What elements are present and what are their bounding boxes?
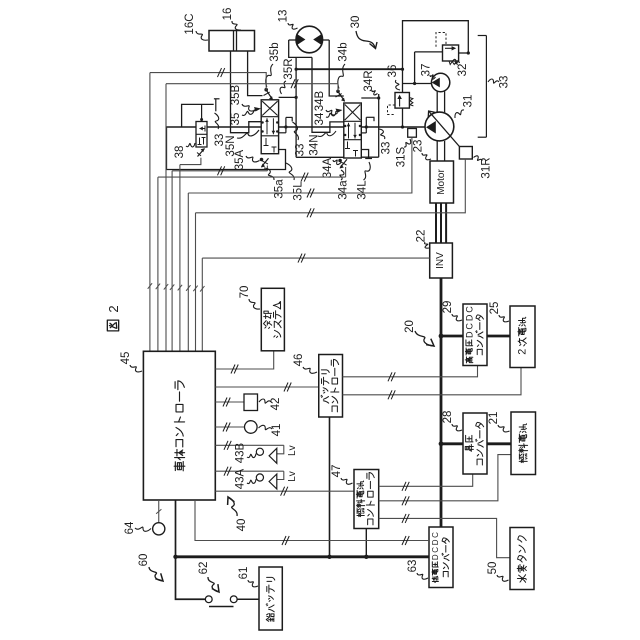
solenoid 34a [338,159,347,169]
label 28 [442,411,462,431]
label 13 [278,10,298,30]
wire 45 to 47 [215,487,354,496]
fuel cell controller 47 [354,470,379,529]
svg-text:2: 2 [106,305,121,312]
label 35a [264,168,286,199]
svg-text:20: 20 [404,320,416,333]
svg-text:13: 13 [278,10,290,23]
wire L7 to regulator 31R [196,159,466,217]
wire valve34 R-port [361,94,380,157]
electric motor 23 [430,161,454,203]
wire L8 to INV [202,254,429,263]
label 32 [452,59,469,76]
wire 46 to 29 [343,366,478,382]
label 35N [225,130,259,157]
svg-text:D: D [431,539,440,545]
lead battery 61 [259,567,282,630]
label 31S [396,139,411,167]
label 33 (bracket) [488,76,511,89]
relief valve 32 [443,45,459,65]
wire main pressure line y=127 [167,125,426,128]
sensor 31S [408,129,417,138]
label 16 [222,8,241,30]
wire feed 35a [266,166,268,171]
label 16C [184,13,208,40]
svg-text:36: 36 [387,65,399,78]
svg-text:31: 31 [463,95,475,108]
svg-text:33: 33 [295,144,307,157]
label 62 [198,562,219,592]
wire 47 to 28 [379,474,473,491]
wire L6 to sensor 31S [188,137,412,197]
wire to valve34 mid port [312,57,344,132]
label 35B [230,84,256,111]
svg-text:38: 38 [174,146,186,159]
label 60 [138,554,163,581]
label 35b [266,42,281,87]
svg-text:34b: 34b [338,42,350,61]
svg-text:D: D [464,314,474,321]
solenoid valve 38 [196,122,207,148]
svg-text:C: C [431,547,440,553]
wire link V1 bottom to valve34 [296,156,344,158]
valve 34 body [344,103,362,158]
wire 38 top stub [200,104,203,121]
svg-text:50: 50 [487,562,499,575]
label 38 [174,143,195,158]
label 45 [120,352,142,372]
HV branch to 28 [441,442,511,445]
secondary battery 25 [510,306,535,368]
tank return header [182,104,214,127]
hydraulic motor 13 [296,26,323,53]
wire valve35 R-port to V1 [279,96,297,98]
battery controller 46 [319,355,343,418]
wire node V1 (35R line) [295,57,298,157]
svg-text:Lv: Lv [287,445,298,456]
label 30 [350,16,377,49]
label 63 [407,560,428,580]
svg-text:C: C [464,323,474,330]
label 34b [338,42,350,88]
valve 35 body [261,100,278,154]
svg-text:28: 28 [442,411,454,424]
svg-text:33: 33 [499,76,511,89]
label 23 [413,140,432,160]
label 35R [280,58,295,94]
wire 45 to 63 signal [195,500,429,545]
body controller 45 [143,351,215,500]
label 34N [309,131,337,156]
svg-text:34A: 34A [322,157,334,178]
svg-text:70: 70 [239,286,251,299]
drain 34L [361,150,372,159]
svg-text:35R: 35R [283,58,295,79]
svg-text:D: D [431,554,440,560]
svg-text:43A: 43A [235,468,247,489]
svg-text:35: 35 [230,113,242,126]
drain 35L [167,127,286,170]
wire motor left port [289,40,312,57]
svg-text:16: 16 [222,8,234,21]
wire 46 to 25 [343,368,522,400]
label 70 [239,286,260,309]
label 47 [331,465,353,485]
switch 62 [205,596,237,607]
label 40 [228,497,248,531]
svg-text:33: 33 [381,142,393,155]
regulator 31R [459,147,472,160]
label 34B [314,90,338,114]
svg-text:46: 46 [293,354,305,367]
LV power line from 45 [173,500,205,599]
LV bus [176,555,430,558]
svg-text:C: C [431,532,440,538]
relief valve 36 [395,93,413,109]
wire 36 to main line [402,108,404,127]
wire 47 to 21 [379,455,511,506]
svg-text:34R: 34R [363,70,375,91]
bracket 33 [478,36,487,138]
label 20 [404,320,434,346]
hydraulic cylinder 16 [209,31,255,52]
svg-text:35L: 35L [293,181,305,201]
svg-text:45: 45 [120,352,132,365]
svg-text:62: 62 [198,562,210,575]
label 42 [259,398,282,411]
svg-text:42: 42 [270,398,282,411]
svg-text:35B: 35B [230,84,242,105]
svg-text:C: C [464,306,474,313]
svg-text:60: 60 [138,554,150,567]
svg-text:37: 37 [421,64,433,77]
fuel cell 21 [511,412,536,475]
label 36 [387,65,400,90]
wire 45 to 41 [215,423,244,432]
wire L3 to solenoid 34b [166,79,338,91]
label 43B [235,442,256,463]
HV DCDC converter 29 [463,304,487,366]
label 31R [474,156,493,179]
label 34 [314,109,343,126]
wire feed 34a [345,167,347,177]
label 22 [416,230,430,249]
sensor 41 [245,421,258,434]
hydrogen tank 50 [510,528,534,590]
solenoid 35a [260,158,269,168]
wire 45 to 70 [215,351,273,374]
boost converter 28 [463,413,487,474]
label 37 [421,64,436,80]
wire L1 to solenoid 35b [150,68,266,90]
svg-text:35A: 35A [234,149,246,170]
pilot sensing dotted (32) [436,33,446,49]
wire 46 to LV bus [327,417,331,559]
main pump 31 [425,111,459,147]
pilot sensing dotted (36) [388,105,396,115]
svg-text:21: 21 [488,412,500,425]
tank T3 symbol [361,117,374,133]
wire L5 to solenoid 38 [180,158,201,165]
label 50 [487,562,509,582]
svg-text:22: 22 [416,230,428,243]
svg-text:16C: 16C [184,13,196,34]
label Lv (43A) [287,471,298,482]
tank symbol 33 (T1) [214,99,220,112]
svg-text:61: 61 [238,567,250,580]
svg-text:23: 23 [413,140,425,153]
svg-text:D: D [464,331,474,338]
svg-text:40: 40 [236,519,248,532]
label 33 (tank T1) [214,113,226,146]
wire 45 to 46 [215,383,318,392]
svg-text:47: 47 [331,465,343,478]
svg-text:31S: 31S [396,146,408,167]
wire 47 to 50 [379,514,510,558]
wire 47 to LV bus [364,529,368,560]
wire L4 to solenoid 35a [172,166,267,175]
figure title 図2 [106,305,121,331]
wire 34R to bottom link [361,156,378,158]
svg-text:35a: 35a [274,179,286,199]
label 35 [230,107,261,125]
label Lv (43B) [287,445,298,456]
label 64 [124,521,151,534]
label 34A [322,157,341,178]
wire L2 to solenoid 34a [158,173,346,182]
svg-text:63: 63 [407,560,419,573]
svg-text:34L: 34L [357,180,369,200]
label 61 [238,567,258,587]
svg-text:25: 25 [489,302,501,315]
cooling system 70 [261,288,284,351]
svg-text:Lv: Lv [287,471,298,482]
HV bus [439,278,444,527]
label 43A [235,468,256,489]
svg-text:32: 32 [457,64,469,77]
tank T2 symbol [279,117,293,132]
svg-text:Motor: Motor [436,169,447,195]
wire pilot header y=69 [296,68,404,71]
wire pilot loop top [403,21,469,93]
label 35A [234,149,260,170]
HV branch to 29 [441,335,510,338]
sensor 42 [244,394,258,411]
svg-text:35b: 35b [269,42,281,61]
3-phase lines [436,203,446,243]
level sensor 43A [215,467,283,489]
label 21 [488,412,510,432]
svg-text:34: 34 [314,112,326,125]
label 33 (tank T2) [293,122,307,156]
label 29 [442,301,462,321]
shaft 37-31 [437,92,444,113]
controller signal bundle [148,73,205,352]
label 25 [489,302,509,322]
shaft 31-motor [437,141,444,161]
wire 45 to 42 [215,398,244,407]
pilot pump 37 [431,73,449,91]
label 35L [286,163,305,201]
wire 45 to relay circle 64 [156,500,161,523]
svg-text:64: 64 [124,521,136,534]
solenoid actuator 38 [197,148,205,156]
wire pilot pump line [403,51,470,85]
label 34R [363,70,378,94]
solenoid 35b [264,88,274,100]
LV DCDC converter 63 [429,527,453,588]
label 34a [338,170,350,200]
inverter 22 [430,243,453,278]
label 34L [357,162,371,200]
level sensor 43B [215,441,283,464]
svg-text:41: 41 [271,424,283,437]
svg-text:2: 2 [517,349,529,355]
svg-text:34a: 34a [338,180,350,200]
wire motor right port to valve34 top port [322,40,343,96]
label 31 [455,95,475,118]
solenoid 34b [336,90,346,102]
svg-text:34B: 34B [314,90,326,111]
svg-text:INV: INV [435,252,446,269]
wire switch to battery 61 [237,598,259,600]
label 46 [293,354,317,374]
label 33 (tank T3) [379,129,393,154]
connector 64 [153,523,165,535]
wire cylinder port A (left) [231,51,263,133]
svg-text:43B: 43B [235,442,247,463]
svg-text:29: 29 [442,301,454,314]
label 41 [259,424,284,437]
wire cylinder port B (right) [248,51,263,96]
svg-text:30: 30 [350,16,362,29]
svg-text:34N: 34N [309,134,321,155]
